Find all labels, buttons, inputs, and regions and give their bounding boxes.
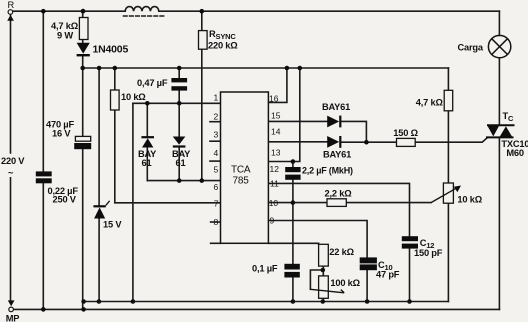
svg-text:1: 1 — [214, 93, 219, 103]
svg-text:10: 10 — [269, 198, 279, 208]
svg-text:4,7 kΩ: 4,7 kΩ — [51, 21, 79, 31]
svg-text:150 pF: 150 pF — [414, 248, 443, 258]
svg-text:10 kΩ: 10 kΩ — [457, 195, 482, 205]
svg-text:16: 16 — [269, 94, 279, 104]
svg-text:7: 7 — [214, 199, 219, 209]
svg-text:2,2 µF (MkH): 2,2 µF (MkH) — [302, 166, 353, 176]
svg-text:9 W: 9 W — [57, 31, 73, 41]
svg-text:MP: MP — [6, 314, 20, 322]
svg-text:TCA: TCA — [231, 165, 251, 176]
svg-text:2,2 kΩ: 2,2 kΩ — [325, 189, 353, 199]
svg-text:15 V: 15 V — [103, 220, 122, 230]
svg-text:150 Ω: 150 Ω — [393, 128, 418, 138]
svg-text:2: 2 — [214, 112, 219, 122]
svg-text:100 kΩ: 100 kΩ — [330, 278, 360, 288]
svg-text:16 V: 16 V — [52, 129, 71, 139]
svg-text:0,47 µF: 0,47 µF — [137, 78, 168, 88]
svg-text:4,7 kΩ: 4,7 kΩ — [416, 98, 444, 108]
svg-text:14: 14 — [271, 127, 281, 137]
svg-text:10 kΩ: 10 kΩ — [121, 92, 146, 102]
svg-text:8: 8 — [214, 217, 219, 227]
svg-text:BAY61: BAY61 — [322, 102, 350, 112]
svg-text:5: 5 — [214, 165, 219, 175]
svg-text:4: 4 — [214, 148, 219, 158]
svg-text:BAY61: BAY61 — [323, 150, 351, 160]
svg-text:61: 61 — [176, 158, 186, 168]
svg-text:785: 785 — [233, 176, 250, 187]
svg-text:12: 12 — [270, 164, 280, 174]
svg-text:220 kΩ: 220 kΩ — [208, 41, 238, 51]
svg-text:M60: M60 — [506, 148, 524, 158]
svg-text:Carga: Carga — [458, 43, 484, 53]
svg-text:6: 6 — [214, 182, 219, 192]
svg-text:61: 61 — [142, 158, 152, 168]
svg-text:~: ~ — [8, 168, 14, 178]
svg-text:11: 11 — [270, 179, 279, 189]
svg-text:9: 9 — [270, 216, 275, 226]
svg-text:13: 13 — [271, 148, 281, 158]
svg-text:47 pF: 47 pF — [376, 270, 400, 280]
svg-text:R: R — [8, 0, 15, 10]
svg-text:1N4005: 1N4005 — [93, 44, 129, 56]
svg-text:22 kΩ: 22 kΩ — [329, 247, 354, 257]
svg-text:220 V: 220 V — [1, 156, 25, 166]
svg-text:0,1 µF: 0,1 µF — [252, 264, 278, 274]
svg-text:15: 15 — [271, 111, 281, 121]
svg-text:250 V: 250 V — [53, 195, 77, 205]
svg-text:3: 3 — [214, 130, 219, 140]
